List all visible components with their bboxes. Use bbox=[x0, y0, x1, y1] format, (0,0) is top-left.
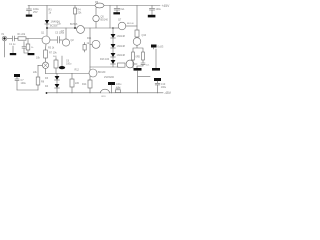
resistor R13 bbox=[118, 63, 126, 67]
svg-text:BD139: BD139 bbox=[98, 71, 106, 74]
ground under output bbox=[152, 68, 160, 71]
resistor R18 bbox=[142, 52, 145, 60]
resistor R19 bump on bottom rail bbox=[101, 89, 110, 93]
resistor R9 inline on top rail bbox=[95, 3, 104, 8]
diode D1 bbox=[45, 20, 49, 24]
svg-text:100u: 100u bbox=[161, 86, 167, 89]
wire current source to diode bus bbox=[45, 69, 47, 74]
capacitor C8 bottom electrolytic bbox=[108, 82, 115, 85]
resistor R15 bottom bbox=[71, 74, 73, 80]
diode D4 bottom bbox=[56, 80, 58, 84]
svg-text:Q10: Q10 bbox=[142, 34, 147, 37]
capacitor C5 bbox=[57, 37, 59, 43]
wire top +45V rail bbox=[28, 5, 160, 7]
junction bias/diode top bbox=[46, 27, 48, 29]
svg-text:C1 1u: C1 1u bbox=[9, 43, 16, 46]
ground below C3 bbox=[113, 12, 120, 14]
wire Q1 emitter down bbox=[45, 44, 48, 50]
svg-text:0u1: 0u1 bbox=[121, 8, 126, 11]
resistor R10 small bbox=[83, 45, 86, 51]
svg-text:R12: R12 bbox=[75, 69, 80, 72]
wire driver bus y73.5 bbox=[72, 73, 89, 75]
svg-text:C5 100p: C5 100p bbox=[55, 32, 65, 35]
diode D6 bbox=[112, 38, 114, 44]
inductor L1 black bar bbox=[134, 68, 142, 71]
junction at bias line and diode string bbox=[112, 27, 114, 29]
wire R14 to rail bbox=[89, 88, 91, 93]
svg-text:IN: IN bbox=[2, 32, 5, 36]
resistor R4 hanging from rail bbox=[74, 6, 76, 9]
diode D3 bottom bbox=[56, 74, 58, 77]
wire to Q2 bbox=[59, 39, 62, 41]
diode string D5 bbox=[112, 28, 114, 34]
wire R1 to Q1 bbox=[26, 38, 42, 40]
capacitor small right branch bbox=[137, 63, 145, 68]
svg-text:R7 10k: R7 10k bbox=[49, 52, 57, 55]
wire feedback to current source bbox=[38, 64, 42, 66]
svg-text:25V: 25V bbox=[33, 10, 38, 14]
wire Q2 up to rail line bbox=[65, 28, 67, 39]
wire top of D3 bbox=[46, 73, 73, 75]
capacitor C2b input filter bbox=[22, 42, 28, 54]
wire Q8 to main vertical bbox=[134, 63, 137, 65]
svg-text:0R5: 0R5 bbox=[136, 56, 141, 59]
ground under R2 bbox=[28, 53, 35, 55]
svg-text:0u33: 0u33 bbox=[158, 45, 164, 49]
capacitor C6 electrolytic bbox=[61, 56, 63, 66]
transistor Q7 bbox=[118, 22, 126, 30]
wire driver line y67 bbox=[90, 66, 118, 68]
input terminal IN bbox=[2, 36, 7, 41]
transistor Q1 bbox=[42, 36, 50, 44]
wire Q7 to main vertical bbox=[126, 25, 137, 27]
wire input shield down bbox=[4, 41, 6, 57]
main output vertical wire bbox=[136, 6, 138, 31]
capacitor C3 decoupling bbox=[114, 6, 120, 13]
wire input line bbox=[7, 38, 12, 40]
svg-text:100u: 100u bbox=[156, 8, 162, 11]
wire Q10 emitter branches bbox=[133, 45, 143, 52]
wire speaker stub bbox=[138, 76, 150, 78]
wire R6 to current source bbox=[45, 58, 47, 62]
capacitor C7 feedback electrolytic bbox=[14, 74, 20, 77]
wire zobel down bbox=[154, 48, 157, 69]
capacitor C2 supply decoupling bbox=[27, 6, 32, 15]
wire rail drop at x110 bbox=[109, 6, 111, 29]
resistor R2 to ground bbox=[27, 39, 29, 45]
ground symbol left bbox=[12, 46, 14, 53]
current source Q3 bbox=[42, 62, 48, 68]
transistor Q8 driver bbox=[126, 60, 134, 68]
svg-text:BC556: BC556 bbox=[70, 23, 78, 26]
transistor Q5 bbox=[93, 15, 99, 21]
resistor R6 bbox=[44, 50, 48, 58]
wire lower main vertical bbox=[137, 71, 139, 93]
wire Q9 down bbox=[89, 76, 91, 80]
wire D1 to Q1 bbox=[46, 24, 48, 36]
diode D7 bbox=[112, 48, 114, 53]
resistor R16 bbox=[135, 30, 139, 37]
wire from rail to D1 bbox=[46, 6, 48, 21]
svg-text:1N4148: 1N4148 bbox=[117, 54, 126, 57]
wire Q1 to C5 bbox=[50, 39, 57, 41]
resistor R20 small box on rail bbox=[116, 90, 121, 93]
svg-text:R5 1k: R5 1k bbox=[48, 47, 55, 50]
wire bias to Q7 bbox=[113, 27, 118, 29]
diode D8 bbox=[112, 57, 114, 60]
resistor R8 feedback bbox=[37, 85, 39, 90]
ground below C2 bbox=[26, 15, 32, 17]
svg-text:R13 100: R13 100 bbox=[100, 58, 110, 61]
wire Q5 down bbox=[95, 22, 97, 28]
svg-text:R1 22k: R1 22k bbox=[18, 33, 26, 36]
svg-text:1N4148: 1N4148 bbox=[117, 45, 126, 48]
wire bottom -45V rail bbox=[46, 92, 163, 94]
junction R4/bias bbox=[74, 27, 76, 29]
transistor Q9 lower driver bbox=[89, 69, 97, 77]
wire diode string to node bbox=[112, 64, 114, 67]
svg-text:-45V: -45V bbox=[164, 91, 172, 95]
resistor R9b vertical bbox=[54, 60, 58, 68]
wire feedback bottom bbox=[17, 89, 38, 91]
svg-text:R11: R11 bbox=[87, 37, 92, 40]
wire bias line y28 bbox=[47, 27, 113, 29]
transistor Q2 bbox=[62, 39, 69, 46]
capacitor C10 bottom right electrolytic bbox=[154, 78, 161, 81]
transistor Q6 bbox=[92, 40, 100, 48]
wire rail to Q5 bbox=[95, 8, 97, 15]
transistor Q4 VAS bbox=[77, 26, 85, 34]
svg-text:0R22: 0R22 bbox=[116, 88, 122, 90]
junction bottom rail left bbox=[46, 92, 48, 94]
svg-text:100u: 100u bbox=[66, 63, 72, 66]
wire Q6 base link bbox=[90, 43, 92, 45]
ground below C4 bbox=[148, 15, 156, 18]
svg-text:220: 220 bbox=[75, 82, 80, 85]
wire Q6 stem bbox=[89, 28, 91, 70]
svg-text:+45V: +45V bbox=[162, 4, 171, 8]
svg-text:R14: R14 bbox=[82, 83, 87, 86]
capacitor C9 zobel black bbox=[151, 45, 157, 48]
svg-text:BD140: BD140 bbox=[101, 19, 109, 22]
transistor Q10 output bbox=[133, 38, 141, 46]
svg-text:2SC5200: 2SC5200 bbox=[104, 76, 115, 79]
svg-text:1N4148: 1N4148 bbox=[117, 35, 126, 38]
svg-text:BD140: BD140 bbox=[127, 23, 134, 25]
wire emitter resistors join bbox=[133, 60, 143, 68]
capacitor C4 electrolytic top right bbox=[149, 6, 154, 15]
resistor R17 bbox=[132, 52, 135, 60]
resistor R14 bbox=[88, 80, 92, 88]
wire D4 to rail bbox=[56, 88, 58, 93]
capacitor C1 input bbox=[12, 36, 14, 41]
resistor R1 input bbox=[18, 37, 26, 40]
svg-text:100u: 100u bbox=[21, 82, 27, 85]
